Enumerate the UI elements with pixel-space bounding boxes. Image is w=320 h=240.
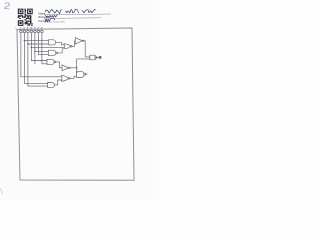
- wire input column 1: [20, 33, 22, 77]
- wire row to G4 top input: [24, 82, 47, 84]
- nor-gate U5: [64, 44, 71, 49]
- junction J2: [27, 43, 28, 44]
- input terminal T2: [23, 30, 26, 33]
- wire G3 output to B2 input: [56, 62, 62, 68]
- svg-text:b: b: [86, 72, 88, 76]
- G3 output bubble: [54, 61, 56, 63]
- wire row to G3 top input: [31, 60, 47, 62]
- wire G2 output riser to U5 bottom input: [57, 48, 62, 53]
- svg-text:Name:: Name:: [39, 13, 47, 16]
- input terminal T1: [20, 30, 23, 33]
- U8 output bubble: [68, 78, 70, 80]
- faint corner mark: [0, 188, 3, 195]
- wire row to G3 bottom input: [42, 63, 47, 65]
- junction J1: [24, 40, 25, 41]
- wire G1 output to U5 top input: [56, 42, 64, 45]
- input terminal T5: [34, 30, 37, 33]
- junction J5: [76, 67, 77, 68]
- G2 output bubble: [56, 52, 58, 54]
- handwriting: [45, 9, 96, 21]
- nor-gate U8: [61, 76, 68, 82]
- inverter B1: [75, 38, 82, 44]
- input terminal T3: [27, 30, 30, 33]
- wire input column 6: [37, 33, 39, 55]
- circuit: [16, 27, 102, 87]
- wire riser to F bottom and U9 top: [76, 59, 79, 73]
- output terminal label: [99, 56, 102, 59]
- wire row to U5 bottom input: [31, 47, 63, 49]
- F output bubble: [95, 57, 97, 59]
- U9 output bubble: [84, 74, 86, 76]
- header underline 2: [45, 17, 102, 20]
- wire B2 output: [70, 67, 77, 69]
- wire F output stub: [96, 57, 99, 59]
- input terminal T6: [37, 30, 40, 33]
- wire row to G4 bottom input: [28, 85, 48, 87]
- header underline 3: [44, 21, 65, 23]
- inverter B2: [62, 65, 69, 71]
- wire input column 4: [30, 33, 32, 61]
- wire input column 2: [23, 33, 25, 84]
- nand-gate F: [90, 55, 97, 60]
- wire to F bottom input: [77, 58, 90, 60]
- nand-gate G2: [48, 50, 56, 55]
- wire G4 output to U8 bottom input: [55, 80, 62, 85]
- wire row to U8 top input: [21, 76, 62, 78]
- input terminal T7: [41, 30, 44, 33]
- junction J4: [34, 51, 35, 52]
- wire input column 5: [34, 33, 36, 64]
- B2 output bubble: [69, 67, 71, 69]
- nand-gate U9: [77, 71, 85, 77]
- wire row to G1 bottom input: [28, 43, 48, 45]
- and-gate G1: [48, 40, 55, 45]
- junction J3: [31, 47, 32, 48]
- input terminal T4: [30, 30, 33, 33]
- wire input column 3: [27, 33, 29, 86]
- wire input column 7: [41, 33, 43, 64]
- wire U5 output to B1 input: [72, 41, 75, 47]
- wire B1 output to F top input: [84, 41, 90, 57]
- U5 output bubble: [71, 46, 73, 48]
- QR code: [18, 9, 33, 27]
- nand-gate G3: [47, 59, 54, 64]
- wire row to G1 top input: [24, 40, 48, 42]
- wire row to G2 top input: [35, 50, 48, 52]
- sheet border: [17, 28, 134, 180]
- header underline 1: [44, 13, 111, 16]
- wire row to G2 bottom input: [38, 54, 48, 56]
- B1 output bubble: [83, 40, 85, 42]
- wire U8 output to U9 bottom input: [70, 76, 77, 78]
- and-gate G4: [48, 83, 55, 88]
